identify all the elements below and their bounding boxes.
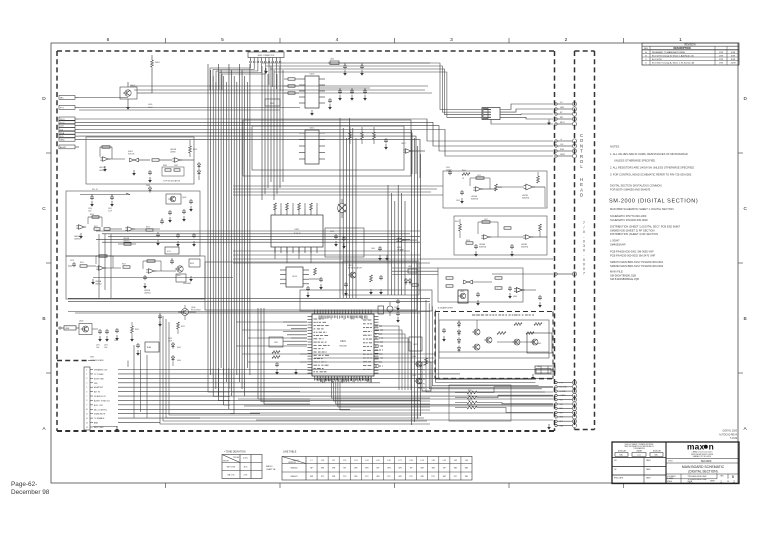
capacitor C617 xyxy=(192,233,196,247)
input tag J6-10 ALERT xyxy=(59,145,79,149)
wire mic conn to CH 1 xyxy=(500,104,553,110)
wire lowleft long xyxy=(93,277,233,279)
zone tick top 2 xyxy=(279,38,281,43)
cpu left parts: resistor array xyxy=(269,337,283,347)
op-amp U603B xyxy=(123,227,135,243)
capacitor C626 xyxy=(136,343,140,356)
transistor Q601 mic amp xyxy=(120,82,152,110)
svg-text:R672: R672 xyxy=(468,400,472,402)
parts box U611 right xyxy=(325,228,364,257)
resistor R664 xyxy=(514,323,522,326)
resistor R632 xyxy=(284,92,299,94)
svg-text:5: 5 xyxy=(221,37,224,43)
svg-text:SM4070: SM4070 xyxy=(290,476,297,478)
rail B1 xyxy=(68,298,430,301)
svg-text:C618: C618 xyxy=(70,260,74,262)
svg-text:GND2: GND2 xyxy=(560,154,565,156)
svg-text:P1: P1 xyxy=(423,365,425,367)
revision table xyxy=(642,43,739,65)
svg-text:C623: C623 xyxy=(114,340,118,342)
svg-text:Q602: Q602 xyxy=(182,197,186,199)
capacitor C641 xyxy=(350,88,354,101)
cpu left resistors xyxy=(272,351,298,375)
wire routing loop B xyxy=(252,126,404,170)
svg-text:SCHEMATIC P/N4230-000-0002: SCHEMATIC P/N4230-000-0002 xyxy=(610,218,648,222)
wire routing loop E nested xyxy=(160,313,430,424)
zone tick bottom 2 xyxy=(279,483,281,488)
svg-text:MIC: MIC xyxy=(60,98,64,100)
svg-text:DOCUMENT: DOCUMENT xyxy=(667,476,676,478)
zone tick left B xyxy=(46,372,51,374)
svg-text:TX D: TX D xyxy=(60,122,65,124)
transistor Q617 box xyxy=(458,290,468,303)
transistor Q609b xyxy=(412,375,422,384)
svg-text:4K/5: 4K/5 xyxy=(244,467,248,469)
svg-text:TX/DEV: TX/DEV xyxy=(233,457,240,459)
wire J603 fan left 3 xyxy=(219,63,262,90)
svg-text:GND: GND xyxy=(560,107,565,109)
svg-text:P/O: P/O xyxy=(387,476,391,478)
capacitor C620 xyxy=(170,258,174,264)
wire HB9 long xyxy=(233,258,553,260)
op-amp U601A xyxy=(99,157,110,172)
svg-text:C607: C607 xyxy=(174,165,178,167)
resistor R656 xyxy=(455,219,461,238)
svg-text:U635: U635 xyxy=(460,291,464,293)
wire vertical bus VB4 xyxy=(388,185,405,295)
transistor Q602 xyxy=(166,194,186,204)
svg-text:L33: L33 xyxy=(465,460,468,462)
wires cpu bottom fan xyxy=(332,381,430,410)
resistor R619 box xyxy=(189,259,200,282)
wires cpu left pins xyxy=(283,322,307,344)
svg-text:Q604: Q604 xyxy=(176,275,180,277)
svg-text:DRL: DRL xyxy=(94,383,98,385)
zone tick top 4 xyxy=(508,38,510,43)
svg-text:MICG: MICG xyxy=(560,122,565,124)
svg-text:L24: L24 xyxy=(365,460,368,462)
cpu pin labels left inner xyxy=(314,319,330,372)
svg-text:10uH: 10uH xyxy=(148,107,153,109)
RC network R609 C607 xyxy=(162,165,184,176)
wire mic conn to CH 3 xyxy=(500,113,553,116)
wire J601 row14 gnd xyxy=(93,427,117,429)
mute box U606 xyxy=(176,274,192,285)
svg-text:PCB P/N600-030-0001 SM-3050 VH: PCB P/N600-030-0001 SM-3050 VHF xyxy=(610,250,654,254)
wire U633 chain xyxy=(490,236,548,238)
svg-text:DATE: DATE xyxy=(646,468,651,471)
svg-text:RADIO/: RADIO/ xyxy=(266,465,273,468)
transistor Q605 box xyxy=(79,321,92,335)
svg-text:PTT: PTT xyxy=(560,382,563,384)
transistor box Q616 xyxy=(0,0,1,1)
svg-text:DIGITAL SECTION DIGITAL/DIGI C: DIGITAL SECTION DIGITAL/DIGI COMMON xyxy=(610,184,662,188)
svg-text:1. ALL VALUES ARE IN OHMS, RE: 1. ALL VALUES ARE IN OHMS, RESISTANCES O… xyxy=(610,152,688,156)
capacitor C621 xyxy=(92,329,102,349)
svg-text:NJM2904: NJM2904 xyxy=(521,247,528,249)
capacitor C633 xyxy=(309,277,323,290)
zone tick left D xyxy=(46,152,51,154)
svg-text:8V SOURCE: 8V SOURCE xyxy=(191,310,202,312)
svg-text:LM358: LM358 xyxy=(99,170,105,172)
wire mic line xyxy=(152,92,310,94)
svg-text:WF 5/75K: WF 5/75K xyxy=(227,467,236,469)
svg-text:10uF: 10uF xyxy=(88,211,92,213)
svg-text:SM-DIGHT80090.JQB: SM-DIGHT80090.JQB xyxy=(610,273,636,277)
svg-text:OF: OF xyxy=(727,481,729,483)
svg-text:P/O: P/O xyxy=(454,476,458,478)
wire header right 2 xyxy=(270,69,482,115)
control head dashed box bottom xyxy=(575,429,595,431)
svg-text:L29: L29 xyxy=(421,460,424,462)
svg-text:R658: R658 xyxy=(466,240,470,242)
svg-text:±.01: ±.01 xyxy=(637,455,640,457)
svg-text:NB 2.5K: NB 2.5K xyxy=(227,475,235,477)
resistor R655b xyxy=(537,172,540,183)
op-amp U601B xyxy=(170,149,194,162)
wires ladder to CH xyxy=(490,387,553,413)
plot info text xyxy=(719,430,738,441)
svg-text:NJM2904: NJM2904 xyxy=(471,199,478,201)
option select table xyxy=(535,366,555,374)
capacitor C618 in xyxy=(68,260,76,267)
svg-text:L-30047: L-30047 xyxy=(610,239,620,243)
varactor D601 pair xyxy=(128,151,150,162)
input tag J6-9 GND xyxy=(59,137,79,141)
svg-text:UNLESS OTHERWISE SPECIFIED.: UNLESS OTHERWISE SPECIFIED. xyxy=(614,159,656,163)
inductor L605 xyxy=(328,59,339,65)
transistor Q615 xyxy=(530,339,538,345)
svg-text:B: B xyxy=(744,316,747,322)
svg-text:+5 GND: +5 GND xyxy=(560,391,567,393)
svg-text:NOTES: NOTES xyxy=(610,145,619,149)
wire u605 out xyxy=(105,267,122,269)
wire J601 row 2 xyxy=(118,377,553,379)
svg-text:8: 8 xyxy=(86,400,87,402)
svg-text:A T/A AMPLIFIER: A T/A AMPLIFIER xyxy=(438,307,454,310)
wire top rail 88 xyxy=(319,87,370,89)
resistor R611 xyxy=(94,226,100,230)
gnd J601 xyxy=(115,426,119,432)
resistor R660 xyxy=(539,224,542,237)
connector J603 misc xyxy=(248,52,284,63)
gnd mod1 xyxy=(103,166,107,172)
pll section outline xyxy=(66,191,200,256)
resistor R630 xyxy=(284,78,299,80)
zone tick bottom 1 xyxy=(165,483,167,488)
svg-text:1: 1 xyxy=(86,369,87,371)
svg-text:AUTOCAD REV4: AUTOCAD REV4 xyxy=(719,433,738,436)
svg-text:R607: R607 xyxy=(193,149,197,151)
svg-text:ECO 4799: ECO 4799 xyxy=(652,59,663,61)
wire bottom band extra 3 xyxy=(250,412,553,414)
wire bottom band extra 4 xyxy=(256,419,553,421)
input tag J6-1 MIC xyxy=(59,96,79,100)
svg-text:10uF: 10uF xyxy=(104,347,108,349)
capacitor C636 xyxy=(328,98,332,110)
diode D611 xyxy=(457,329,460,336)
svg-text:LM2904: LM2904 xyxy=(95,284,102,286)
label CONTROL HEAD xyxy=(580,133,584,198)
svg-text:-: - xyxy=(583,253,584,257)
wire mic conn to CH 4 xyxy=(500,117,553,119)
resistor R659 xyxy=(504,227,511,229)
svg-text:PCB P/N4230-000-0002 SM-2470 U: PCB P/N4230-000-0002 SM-2470 UHF xyxy=(610,253,656,257)
input tag J6-8 SCL xyxy=(59,134,79,138)
svg-text:R617: R617 xyxy=(122,264,126,266)
label L601 xyxy=(148,104,153,109)
svg-text:VOL: VOL xyxy=(560,400,563,402)
op-amp U633B xyxy=(521,235,533,249)
capacitor C658 xyxy=(474,244,478,257)
svg-text:MAIN BRD SCHEMATIC SHEET 1, DI: MAIN BRD SCHEMATIC SHEET 1, DIGITAL SECT… xyxy=(610,207,674,211)
digital section dashed boundary left xyxy=(56,51,58,431)
svg-text:U623: U623 xyxy=(413,344,418,346)
svg-text:RN2: RN2 xyxy=(274,342,278,344)
svg-text:L605: L605 xyxy=(330,59,334,61)
svg-text:C621: C621 xyxy=(96,345,100,347)
svg-text:+5: +5 xyxy=(560,139,562,141)
input tag J6-2 PTT xyxy=(59,106,79,110)
svg-text:L31: L31 xyxy=(443,460,446,462)
digital section dashed boundary right xyxy=(554,51,556,431)
svg-text:SCHEMATIC P/N770-030-1000: SCHEMATIC P/N770-030-1000 xyxy=(610,214,647,218)
diode D606 xyxy=(171,355,181,366)
svg-text:TOP MODULATOR: TOP MODULATOR xyxy=(163,180,181,183)
svg-text:P6: P6 xyxy=(423,388,425,390)
svg-text:C657: C657 xyxy=(484,219,488,221)
svg-text:L30: L30 xyxy=(432,460,435,462)
transistor Q604 xyxy=(175,266,183,277)
capacitor C638 xyxy=(343,63,347,76)
wire J601 row 11 xyxy=(118,417,200,419)
svg-text:R619: R619 xyxy=(190,263,194,265)
gnd control head xyxy=(547,424,551,430)
cpu pin labels right outer xyxy=(375,324,377,326)
resistor R617 xyxy=(122,264,130,269)
rail B2 xyxy=(68,312,430,314)
control head connector pins group2 xyxy=(555,139,577,158)
svg-text:D: D xyxy=(42,96,46,102)
zone tick top 5 xyxy=(623,38,625,43)
wires cpu right fan xyxy=(379,326,412,390)
svg-text:3: 3 xyxy=(583,244,585,248)
svg-text:C654: C654 xyxy=(446,167,450,169)
wire J601 row 6 xyxy=(118,395,553,397)
wire routing loop G nested xyxy=(426,300,545,392)
wire mic conn to CH 5 xyxy=(491,120,553,125)
svg-text:L23: L23 xyxy=(354,460,357,462)
svg-text:n: n xyxy=(709,442,714,452)
input tag J6-3 RX D xyxy=(59,117,79,121)
wires into cpu left long xyxy=(236,322,307,362)
wire J601 row 5 xyxy=(118,391,300,393)
resistor R607 xyxy=(189,140,198,157)
transistor Q608 xyxy=(412,356,427,367)
microprocessor U621 xyxy=(308,310,379,381)
op-amp U631B xyxy=(522,184,545,199)
diode D610 xyxy=(457,321,460,328)
digital section dashed boundary bottom xyxy=(57,430,555,432)
svg-text:MISC GND: MISC GND xyxy=(94,427,104,429)
svg-text:3: 3 xyxy=(86,378,87,380)
svg-text:C656: C656 xyxy=(456,200,460,202)
resistor R601 xyxy=(151,55,161,93)
op-amp U618 xyxy=(396,238,417,252)
audio PA part labels xyxy=(472,314,534,316)
svg-text:0.047uF: 0.047uF xyxy=(446,169,452,171)
digital section dashed boundary top xyxy=(57,50,555,52)
wire horizontal bus HB8 xyxy=(96,231,420,242)
wire J601 row 4 xyxy=(118,386,553,388)
input tag J6-5 CLK xyxy=(59,124,79,128)
wire routing loop A xyxy=(243,120,411,176)
gnd J603 xyxy=(264,68,268,74)
resistor R654 xyxy=(495,184,502,191)
control head connector pins group1 xyxy=(555,102,577,126)
svg-text:P/O: P/O xyxy=(321,476,325,478)
regulator U619 block xyxy=(343,261,419,296)
svg-text:HD6433: HD6433 xyxy=(339,346,347,348)
svg-text:9: 9 xyxy=(86,405,87,407)
capacitor C610 xyxy=(88,194,94,213)
svg-text:SPEAKER OUT: SPEAKER OUT xyxy=(94,369,108,372)
svg-text:LINE: LINE xyxy=(65,328,70,330)
gnd pll xyxy=(79,233,83,239)
IC U613 xyxy=(280,267,309,287)
svg-text:3. FOR CONTROL HEAD SCHEMATIC: 3. FOR CONTROL HEAD SCHEMATIC REFER TO P… xyxy=(610,173,692,177)
svg-text:RN1: RN1 xyxy=(270,103,274,105)
IC U611 expander xyxy=(271,203,323,253)
diode D612 xyxy=(457,337,460,344)
wire J603 fan down 8 xyxy=(279,63,281,91)
zone tick bottom 3 xyxy=(394,483,396,488)
svg-text:10uF: 10uF xyxy=(96,347,100,349)
resistor ladder RPACK xyxy=(449,385,511,421)
svg-text:T-1049: T-1049 xyxy=(730,438,738,440)
svg-text:2: 2 xyxy=(565,37,568,43)
diode D613 xyxy=(457,346,460,353)
svg-text:FOR BOTH SM4050 AND SM4070: FOR BOTH SM4050 AND SM4070 xyxy=(610,188,651,192)
resistor R657 fb xyxy=(478,219,498,237)
label C625 xyxy=(168,338,172,343)
svg-text:ENG DATE: ENG DATE xyxy=(614,477,624,480)
gnd mod2 xyxy=(132,170,136,176)
wire bottom band extra 0 xyxy=(232,391,553,393)
tone deviation table xyxy=(222,450,262,478)
op-amp U637 xyxy=(514,288,524,293)
gnd mic conn xyxy=(547,120,551,126)
svg-text:0: 0 xyxy=(583,230,585,234)
svg-text:SP1: SP1 xyxy=(560,421,563,423)
op-amp U605A xyxy=(95,266,106,286)
svg-text:LM358: LM358 xyxy=(170,152,176,154)
line table xyxy=(282,450,472,480)
op-amp U635 xyxy=(460,280,492,293)
svg-text:MIC GND: MIC GND xyxy=(560,387,568,389)
svg-text:TX ENABLE: TX ENABLE xyxy=(94,417,105,420)
svg-text:MAIN BOARD SCHEMATIC: MAIN BOARD SCHEMATIC xyxy=(682,465,725,469)
svg-text:10: 10 xyxy=(86,409,88,411)
svg-text:14: 14 xyxy=(86,427,88,429)
capacitor C645 xyxy=(384,138,388,150)
wire header right 0 xyxy=(262,63,482,110)
svg-text:RELEASED TO MANUFACTURING: RELEASED TO MANUFACTURING xyxy=(652,51,686,54)
resistor network RN601 xyxy=(265,99,280,106)
wire J603 fan left 2 xyxy=(216,63,258,90)
zone tick bottom 5 xyxy=(623,483,625,488)
svg-text:4.0KC: 4.0KC xyxy=(243,458,249,460)
transistor Q612 xyxy=(472,344,480,350)
svg-text:7: 7 xyxy=(583,221,585,225)
svg-text:L28: L28 xyxy=(410,460,413,462)
svg-text:VERSION: VERSION xyxy=(288,462,296,464)
wire net CS to control head xyxy=(79,130,553,157)
trimmer X601 xyxy=(338,199,347,218)
squelch outline xyxy=(438,268,523,302)
wire PTT run xyxy=(79,108,300,111)
svg-text:ATT IN: ATT IN xyxy=(94,391,100,394)
mod section outline xyxy=(86,137,194,184)
svg-text:DISTRIBUTION (SHEET 1) DIGITAL: DISTRIBUTION (SHEET 1) DIGITAL SECT. PCB… xyxy=(610,225,681,229)
svg-text:R673: R673 xyxy=(468,405,472,407)
wire header right 3 xyxy=(274,72,482,117)
capacitor C652 xyxy=(396,311,400,323)
svg-text:a BRAD of Communications: a BRAD of Communications xyxy=(691,451,712,454)
resistor R631 xyxy=(284,85,299,87)
svg-text:SM4070 MAIN BRD ASSY P/N4200-0: SM4070 MAIN BRD ASSY P/N4200-000-0001 xyxy=(610,260,664,264)
svg-text:JTW: JTW xyxy=(719,52,723,54)
svg-text:0.1uF: 0.1uF xyxy=(108,211,112,213)
wire horizontal bus HB7 xyxy=(233,186,443,195)
wire horizontal bus HB10 xyxy=(392,268,438,274)
svg-text:C: C xyxy=(42,206,46,212)
wire net TXD to control head xyxy=(79,122,553,146)
zone tick top 1 xyxy=(165,38,167,43)
svg-text:P/O: P/O xyxy=(410,476,414,478)
mic connector P601 xyxy=(482,108,500,120)
wire horizontal bus HB12 xyxy=(300,354,435,362)
svg-text:TPS-800-0000 VHF: TPS-800-0000 VHF xyxy=(687,476,707,478)
svg-text:L27: L27 xyxy=(398,460,401,462)
zone tick top 3 xyxy=(394,38,396,43)
svg-text:• TONE DEVIATION: • TONE DEVIATION xyxy=(224,450,246,453)
audio PA inner outline xyxy=(439,320,549,358)
capacitor C646 xyxy=(371,246,389,261)
svg-text:U606 AMP: U606 AMP xyxy=(183,282,192,285)
svg-text:4.7uF: 4.7uF xyxy=(168,341,172,343)
svg-text:R613: R613 xyxy=(146,227,150,229)
IC U615 xyxy=(299,128,325,165)
svg-text:SQL: SQL xyxy=(560,404,563,406)
capacitor C663b xyxy=(442,328,446,342)
wire bottom band extra 2 xyxy=(244,405,553,407)
svg-text:LINE TABLE: LINE TABLE xyxy=(283,450,297,453)
wire header right 1 xyxy=(266,66,482,112)
svg-text:MAIN FILE: MAIN FILE xyxy=(610,270,623,274)
svg-text:SM-2000 (DIGITAL SECTION): SM-2000 (DIGITAL SECTION) xyxy=(609,199,698,205)
label reset lower xyxy=(165,247,179,254)
svg-text:SM-2000: SM-2000 xyxy=(701,459,712,463)
svg-text:12: 12 xyxy=(86,418,88,420)
resistor R663 xyxy=(497,332,506,335)
resistor R661 xyxy=(446,277,453,287)
cpu pin labels top xyxy=(319,316,367,320)
wire bottom band extra 1 xyxy=(238,398,553,400)
AD block U641 xyxy=(527,333,552,353)
wire J601 row 10 xyxy=(118,413,260,415)
svg-text:BCLL CNT: BCLL CNT xyxy=(94,405,104,407)
